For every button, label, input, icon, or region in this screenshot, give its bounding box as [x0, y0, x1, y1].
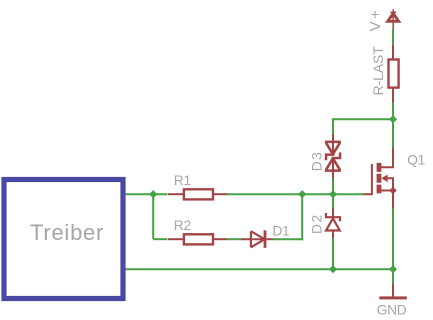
supply symbol V+ plus mark — [390, 11, 396, 13]
wire: gate net junction down to D2 top — [332, 194, 334, 208]
zener diode D2 cathode bar — [325, 213, 341, 221]
wire: Q1 source down to ground rail — [392, 209, 394, 270]
resistor R-LAST top pin — [392, 45, 394, 60]
svg-text:D3: D3 — [310, 151, 325, 172]
wire: riser x=302 up to gate net — [301, 194, 303, 240]
supply symbol V+ stem — [392, 9, 394, 29]
wire: drain junction down to Q1 drain — [392, 119, 394, 149]
transistor Q1 channel bars — [377, 163, 382, 194]
suppressor diode D3 top triangle — [326, 143, 340, 154]
wire: gate net from R1 to Q1 gate — [227, 193, 365, 195]
node junction at (393,269) — [389, 265, 397, 273]
resistor R1 body — [184, 189, 213, 199]
wire: V+ to R-LAST — [392, 30, 394, 47]
svg-text:R2: R2 — [174, 218, 191, 233]
suppressor diode D3 top bar — [325, 141, 341, 144]
resistor R2 left pin — [168, 238, 184, 240]
transistor Q1 source node dot — [389, 187, 396, 194]
svg-text:GND: GND — [377, 302, 407, 317]
wire: D1 cathode to riser — [273, 238, 304, 240]
resistor R2 right pin — [213, 238, 228, 240]
resistor R1 left pin — [168, 193, 184, 195]
node junction at (153,194) — [149, 190, 157, 198]
suppressor diode D3 top stub — [332, 135, 334, 156]
suppressor diode D3 bottom stub — [332, 158, 334, 179]
wire: top link from D3 column to drain column (y=119) — [333, 118, 393, 120]
resistor R2 body — [184, 234, 213, 244]
transistor Q1 gate pin — [364, 193, 372, 195]
suppressor diode D3 middle zener bar — [325, 152, 342, 160]
ground symbol GND stem — [392, 284, 394, 297]
ground symbol GND bar — [379, 296, 407, 299]
wire: D3 top connection — [332, 118, 334, 135]
suppressor diode D3 bottom triangle — [326, 158, 340, 169]
wire: R2 to D1 anode — [227, 238, 243, 240]
wire: ground rail to GND symbol — [392, 269, 394, 285]
svg-text:R1: R1 — [174, 173, 191, 188]
resistor R1 right pin — [213, 193, 228, 195]
supply symbol V+ arrowhead — [388, 13, 399, 21]
wire: Treiber top output to gate net (y=194) — [126, 193, 168, 195]
svg-text:Treiber: Treiber — [30, 220, 104, 245]
node junction at (393,119) — [389, 115, 397, 123]
ground rail wire (y=269) — [126, 268, 394, 270]
wire: R2 branch horizontal to R2 left pin — [153, 238, 167, 240]
svg-text:Q1: Q1 — [407, 152, 425, 167]
suppressor diode D3 bottom bar — [325, 169, 341, 172]
svg-text:R-LAST: R-LAST — [371, 46, 386, 96]
zener diode D2 top stub — [332, 208, 334, 218]
zener diode D2 anode stub — [332, 231, 334, 239]
transistor Q1 body diode arrow — [381, 175, 387, 183]
wire: R-LAST to drain junction — [392, 103, 394, 120]
transistor Q1 gate bar — [371, 164, 373, 195]
wire: junction drop x=153 down to R2 branch — [152, 194, 154, 239]
svg-text:D1: D1 — [272, 224, 289, 239]
svg-text:V+: V+ — [367, 8, 384, 32]
diode D1 anode pin — [242, 238, 265, 240]
zener diode D2 triangle — [326, 218, 340, 230]
node junction at (302,194) — [298, 190, 306, 198]
Treiber driver box — [4, 180, 123, 299]
wire: D2 bottom to ground rail — [332, 238, 334, 270]
resistor R-LAST body — [389, 60, 399, 88]
node junction at (333,194) — [329, 190, 337, 198]
transistor Q1 body diode link — [388, 178, 394, 190]
diode D1 cathode stub — [266, 238, 273, 240]
transistor Q1 source lead — [381, 191, 393, 210]
diode D1 triangle — [251, 231, 265, 247]
node junction at (333,269) — [329, 265, 337, 273]
transistor Q1 drain lead — [381, 149, 393, 168]
wire: D3 bottom to gate net junction — [332, 178, 334, 194]
diode D1 cathode bar — [264, 230, 267, 248]
svg-text:D2: D2 — [310, 213, 325, 234]
resistor R-LAST bottom pin — [392, 88, 394, 104]
